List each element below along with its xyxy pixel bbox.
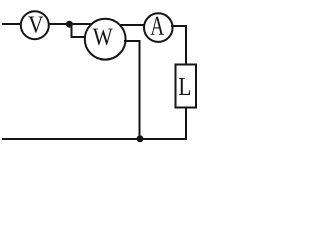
node: junction dot top: [66, 21, 73, 28]
voltmeter V: [21, 11, 49, 39]
inductor L (load box): [176, 65, 197, 108]
wire: ammeter right then down to load: [171, 26, 186, 64]
wire: load bottom down to bottom rail: [185, 108, 187, 139]
wire: wattmeter to ammeter: [119, 24, 146, 26]
wire: voltmeter to junction node: [48, 23, 69, 25]
wire: bottom rail: [2, 138, 187, 140]
wire: junction node into wattmeter current coil (top chord): [70, 23, 93, 25]
wire: step down from junction to wattmeter left terminal: [72, 24, 87, 37]
ammeter A: [144, 13, 173, 42]
wire: left top terminal to voltmeter: [2, 23, 21, 25]
wattmeter W: [85, 19, 126, 60]
wire: wattmeter voltage-coil return to bottom rail: [124, 41, 140, 139]
node: junction dot bottom: [137, 135, 144, 142]
